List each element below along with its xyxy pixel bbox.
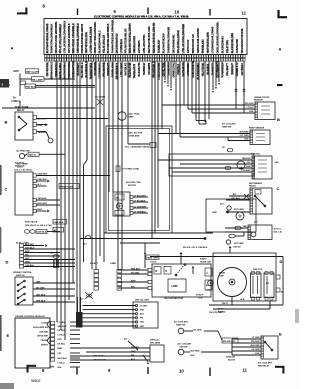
svg-text:BLK: BLK — [140, 314, 145, 316]
svg-text:10: 10 — [179, 369, 184, 374]
svg-text:BRN624XWLGR: BRN624XWLGR — [192, 34, 195, 53]
svg-text:A/C COOLANT: A/C COOLANT — [174, 320, 189, 323]
svg-text:TAN/BLK57: TAN/BLK57 — [158, 39, 161, 53]
svg-text:PNK BLK: PNK BLK — [26, 86, 36, 88]
svg-text:PUMP: PUMP — [128, 117, 135, 119]
svg-text:14-A: 14-A — [240, 298, 245, 301]
svg-text:FUEL PUMP: FUEL PUMP — [15, 107, 29, 109]
svg-text:MODULE: MODULE — [15, 166, 25, 168]
svg-text:LTGRN470XWL: LTGRN470XWL — [68, 61, 71, 79]
svg-text:RELAY: RELAY — [249, 185, 256, 188]
svg-text:A/T TCC: A/T TCC — [274, 228, 282, 231]
svg-text:TAN589XW: TAN589XW — [143, 62, 146, 76]
svg-text:YEL491XWLG: YEL491XWLG — [81, 62, 84, 78]
svg-text:(2.5L & 7.4L ONLY): (2.5L & 7.4L ONLY) — [14, 169, 32, 172]
svg-text:ORN/BLK72: ORN/BLK72 — [236, 62, 239, 76]
svg-text:MAP CLSTR: MAP CLSTR — [26, 70, 39, 73]
svg-text:GRY: GRY — [58, 339, 63, 341]
svg-text:IDLE AIR CTRL: IDLE AIR CTRL — [126, 181, 142, 184]
svg-text:MAP: MAP — [14, 70, 20, 73]
svg-text:VEH CAL UNIT: VEH CAL UNIT — [135, 298, 150, 301]
svg-text:BRN442XWLGRN450BLK: BRN442XWLGRN450BLK — [72, 23, 75, 53]
svg-text:SHOULDER SW: SHOULDER SW — [33, 327, 48, 329]
svg-text:TAN/BLK575: TAN/BLK575 — [133, 63, 136, 78]
svg-text:GRY617XW: GRY617XW — [187, 39, 190, 53]
svg-text:GRY BLK: GRY BLK — [58, 326, 67, 328]
svg-text:ORN449XWLGRN450BLK: ORN449XWLGRN450BLK — [77, 23, 80, 53]
svg-text:D: D — [280, 259, 283, 264]
svg-text:VSS: VSS — [275, 162, 280, 164]
svg-text:TACH: TACH — [218, 308, 224, 311]
svg-text:CAN BLK: CAN BLK — [37, 231, 47, 234]
svg-text:SELECT: SELECT — [90, 263, 99, 265]
svg-text:DKGRN414XWLGRN450BL: DKGRN414XWLGRN450BL — [55, 21, 58, 53]
svg-text:DKBLU477XWLGRN450BL: DKBLU477XWLGRN450BL — [94, 21, 97, 53]
svg-text:IAC: IAC — [116, 197, 120, 200]
svg-text:TAN589XWLGRN450B: TAN589XWLGRN450B — [168, 27, 171, 53]
svg-text:DK GRN: DK GRN — [131, 272, 139, 274]
svg-text:A/C COOLANT: A/C COOLANT — [178, 342, 193, 345]
svg-text:C: C — [5, 187, 8, 192]
svg-text:E: E — [279, 332, 282, 337]
svg-text:TEMP SW: TEMP SW — [176, 324, 185, 326]
svg-text:BRN442XWLG: BRN442XWLG — [51, 62, 54, 79]
svg-text:ORN449XWLG: ORN449XWLG — [55, 61, 58, 78]
svg-text:VEHICLE: VEHICLE — [150, 339, 159, 341]
svg-text:LT BLU: LT BLU — [58, 362, 66, 364]
svg-text:TAN 30: TAN 30 — [29, 154, 37, 157]
svg-text:PPL/WHT526XWLGR: PPL/WHT526XWLGR — [125, 28, 128, 53]
svg-text:D: D — [6, 260, 9, 265]
svg-text:NOT USED: NOT USED — [234, 243, 244, 245]
svg-text:DK GRN: DK GRN — [194, 329, 202, 331]
svg-text:DKGRN/WHT694XWL: DKGRN/WHT694XWL — [241, 27, 244, 53]
svg-text:PRIME CONN: PRIME CONN — [60, 187, 74, 189]
svg-text:PICKUP: PICKUP — [196, 295, 204, 297]
svg-text:TANK UNIT: TANK UNIT — [147, 257, 159, 260]
svg-text:A: A — [11, 46, 14, 51]
svg-text:SOL. CANISTER PURGE: SOL. CANISTER PURGE — [125, 146, 150, 149]
svg-text:PURPLE: PURPLE — [218, 311, 226, 313]
svg-text:CAR SER: CAR SER — [39, 330, 49, 333]
svg-text:BLK/RED484XWLG: BLK/RED484XWLG — [99, 30, 102, 53]
svg-text:SECONDARY: SECONDARY — [249, 182, 263, 185]
svg-text:CONN ASM: CONN ASM — [128, 135, 140, 138]
svg-text:WHT/BLK561XWLGRN: WHT/BLK561XWLGRN — [148, 26, 151, 53]
svg-text:BLK/WHT58: BLK/WHT58 — [138, 62, 141, 77]
svg-text:(W/A VIN A 2.5L, VIN N & 7.4L): (W/A VIN A 2.5L, VIN N & 7.4L) — [25, 224, 52, 227]
svg-text:A/C COOLANT: A/C COOLANT — [258, 362, 273, 365]
svg-text:SPLICE +O2: SPLICE +O2 — [223, 341, 236, 343]
svg-text:A: A — [279, 47, 282, 52]
svg-text:ELECTRONIC CONTROL MODULE (A V: ELECTRONIC CONTROL MODULE (A VIN A 2.5L … — [94, 14, 188, 18]
svg-text:DKGRN/WHT512: DKGRN/WHT512 — [116, 33, 119, 53]
svg-text:A/C CONN: A/C CONN — [95, 96, 105, 99]
svg-text:GRN: GRN — [38, 125, 43, 127]
svg-text:EGR VALVE: EGR VALVE — [25, 221, 38, 224]
svg-text:TAN407XWLGRN450BLK: TAN407XWLGRN450BLK — [51, 23, 54, 53]
svg-text:MOTOR: MOTOR — [128, 185, 136, 187]
svg-text:BLK/WHT582XW: BLK/WHT582XW — [163, 33, 166, 53]
svg-text:PNK/BLK63: PNK/BLK63 — [202, 39, 205, 54]
svg-text:PNK/BLK456XWLGRN45: PNK/BLK456XWLGRN45 — [81, 23, 84, 53]
svg-text:96602: 96602 — [31, 379, 41, 383]
svg-text:A/T TURBO CONN: A/T TURBO CONN — [122, 168, 140, 171]
svg-text:ORN631XWLG: ORN631XWLG — [173, 61, 176, 78]
svg-text:WHT: WHT — [131, 280, 136, 282]
svg-text:WHT645XWLGRN: WHT645XWLGRN — [207, 32, 210, 53]
svg-text:TAN/WHT68: TAN/WHT68 — [236, 38, 239, 53]
svg-text:G101: G101 — [50, 253, 55, 255]
svg-text:ORN/BLK540X: ORN/BLK540X — [133, 36, 136, 54]
svg-text:SPLICE +12V 2: PNK BLK: SPLICE +12V 2: PNK BLK — [183, 247, 208, 249]
svg-text:WHT: WHT — [131, 351, 136, 353]
svg-text:LT GRN/WHT: LT GRN/WHT — [134, 206, 147, 208]
svg-text:PNK BLK: PNK BLK — [131, 268, 140, 270]
svg-text:FUSE 9: FUSE 9 — [12, 100, 21, 103]
svg-text:COILS: COILS — [150, 262, 157, 264]
svg-text:A/T COOLANT: A/T COOLANT — [222, 123, 236, 126]
svg-text:LTGRN652XWLGRN45: LTGRN652XWLGRN45 — [212, 26, 215, 53]
svg-text:FAN RELAY: FAN RELAY — [258, 365, 270, 368]
svg-text:RADIO: RADIO — [200, 258, 207, 261]
svg-text:GEN: GEN — [212, 212, 217, 214]
svg-text:FAN SW: FAN SW — [180, 345, 188, 348]
svg-text:BLK RED: BLK RED — [191, 350, 200, 352]
svg-text:11: 11 — [243, 368, 248, 373]
svg-text:LT BLU/WHT: LT BLU/WHT — [134, 195, 147, 197]
svg-text:LTGRN470XWLGRN45: LTGRN470XWLGRN45 — [90, 26, 93, 53]
svg-text:DKGRN596XWL: DKGRN596XWL — [173, 34, 176, 53]
svg-text:CRUISE CONTROL: CRUISE CONTROL — [13, 272, 32, 274]
svg-text:ELEC. FUEL: ELEC. FUEL — [128, 114, 141, 116]
svg-text:MIL LAMP: MIL LAMP — [32, 78, 43, 81]
svg-text:LT BLU/BLK: LT BLU/BLK — [134, 200, 146, 202]
svg-text:COIL: COIL — [206, 290, 212, 292]
svg-text:KNAP SENSOR: KNAP SENSOR — [249, 127, 265, 130]
svg-text:PNK: PNK — [140, 309, 145, 311]
svg-text:GAS. ALT THR: GAS. ALT THR — [128, 132, 143, 135]
svg-text:WHT/BLK5: WHT/BLK5 — [125, 62, 128, 75]
svg-text:DRIVE SER: DRIVE SER — [37, 336, 48, 338]
svg-text:BLK/RED666X: BLK/RED666X — [197, 63, 200, 80]
svg-text:CAP: CAP — [220, 275, 225, 278]
svg-text:PPL/WHT7: PPL/WHT7 — [226, 63, 229, 76]
svg-text:BRN: BRN — [58, 348, 63, 350]
svg-text:SENSOR: SENSOR — [254, 100, 263, 102]
svg-text:A/T FUEL: A/T FUEL — [15, 162, 26, 165]
svg-text:E: E — [7, 333, 10, 338]
svg-text:LTBLU428XWLGRN450BLK: LTBLU428XWLGRN450BLK — [64, 20, 67, 53]
svg-text:B: B — [277, 117, 280, 122]
svg-text:C: C — [277, 186, 280, 191]
svg-text:ORN631XWLGRN450: ORN631XWLGRN450 — [197, 28, 200, 54]
svg-text:CARB: CARB — [110, 262, 116, 265]
svg-text:DKGRN59: DKGRN59 — [148, 62, 151, 74]
svg-text:DKBLU659XW: DKBLU659XW — [192, 60, 195, 77]
svg-text:WHT BLK: WHT BLK — [58, 358, 68, 360]
svg-text:DK BLU: DK BLU — [58, 343, 66, 345]
svg-text:CAN BLK: CAN BLK — [54, 221, 64, 224]
svg-text:B: B — [5, 120, 8, 125]
svg-text:DK GRN: DK GRN — [58, 330, 66, 332]
svg-text:PPL603XWLGRN45: PPL603XWLGRN45 — [177, 30, 180, 54]
svg-text:CRANK POSTN: CRANK POSTN — [254, 96, 270, 99]
svg-text:TEMP SW: TEMP SW — [222, 127, 231, 129]
svg-text:NOT USED: NOT USED — [234, 209, 244, 211]
svg-text:SIDE COIL: SIDE COIL — [253, 269, 263, 271]
svg-text:BLK/WHT400XWLGRN45: BLK/WHT400XWLGRN45 — [46, 23, 49, 53]
svg-text:C1: C1 — [206, 273, 208, 275]
svg-text:SPD SENS: SPD SENS — [150, 342, 161, 344]
svg-text:TAN: TAN — [140, 321, 144, 324]
svg-text:10: 10 — [175, 10, 180, 15]
svg-text:TACH: TACH — [222, 302, 228, 305]
svg-text:TAN: TAN — [243, 225, 248, 228]
svg-text:ALT: ALT — [54, 229, 59, 232]
svg-text:BLK/RED666X: BLK/RED666X — [222, 36, 225, 53]
svg-text:11: 11 — [242, 11, 247, 16]
svg-text:GRY435XWL: GRY435XWL — [46, 61, 49, 76]
svg-text:LTBLU/WHT554: LTBLU/WHT554 — [143, 34, 146, 53]
svg-text:BRN/WHT533XWLGRN45: BRN/WHT533XWLGRN45 — [129, 23, 132, 53]
svg-text:SOL 7.4L: SOL 7.4L — [274, 231, 283, 234]
svg-text:SERVO: SERVO — [41, 345, 48, 347]
svg-text:TAN/WHT505XWLGRN450BL: TAN/WHT505XWLGRN450BL — [112, 19, 115, 54]
svg-text:BRN/WHT: BRN/WHT — [231, 62, 234, 74]
svg-text:NOISE CAP: NOISE CAP — [200, 260, 212, 263]
svg-text:GRY/RED547X: GRY/RED547X — [116, 62, 119, 79]
svg-text:GRY/RED5: GRY/RED5 — [138, 40, 141, 53]
svg-text:CRUISE CONTROL MODULE: CRUISE CONTROL MODULE — [15, 316, 45, 318]
svg-text:YEL491XWLGR: YEL491XWLGR — [103, 35, 106, 54]
svg-text:LAMP: LAMP — [171, 285, 178, 288]
svg-text:BLK: BLK — [58, 367, 63, 369]
svg-text:BLK498XWLGRN450BLK: BLK498XWLGRN450BLK — [107, 23, 110, 53]
svg-text:HEI DISTRIBUTOR: HEI DISTRIBUTOR — [164, 298, 184, 300]
svg-text:PPL421XWLGRN450BLK: PPL421XWLGRN450BLK — [59, 24, 62, 54]
svg-text:DKBLU659XWLGRN450BL: DKBLU659XWLGRN450BL — [217, 21, 220, 53]
svg-text:YEL673XWL: YEL673XWL — [202, 62, 205, 77]
svg-text:LT GRN: LT GRN — [58, 322, 66, 324]
svg-text:YEL673XW: YEL673XW — [226, 39, 229, 53]
svg-text:IGNITION: IGNITION — [226, 357, 235, 359]
svg-text:RED/BLK568XWLGRN450: RED/BLK568XWLGRN450 — [153, 22, 156, 53]
svg-text:LT GRN/BLK: LT GRN/BLK — [134, 211, 147, 213]
svg-text:OIL PRES SW: OIL PRES SW — [16, 151, 30, 153]
svg-text:LT BLU: LT BLU — [58, 334, 66, 336]
svg-text:LTGRN/BLK: LTGRN/BLK — [120, 39, 123, 53]
svg-text:DISTR: DISTR — [219, 273, 226, 275]
svg-text:WHT463XWLGRN: WHT463XWLGRN — [85, 32, 88, 53]
svg-text:BLOCK: BLOCK — [228, 360, 236, 362]
svg-text:LT GRN: LT GRN — [140, 305, 148, 307]
svg-text:LTBLU610XWLGRN450B: LTBLU610XWLGRN450B — [182, 24, 185, 53]
svg-text:GRY435XWLGRN450BLK: GRY435XWLGRN450BLK — [68, 23, 71, 53]
svg-text:BLK: BLK — [131, 359, 136, 361]
svg-text:EGR SOL: EGR SOL — [251, 154, 261, 156]
svg-text:RED/BLK568: RED/BLK568 — [129, 62, 132, 78]
svg-text:C/MT A6: C/MT A6 — [233, 246, 241, 249]
svg-text:BLK680XWLGRN: BLK680XWLGRN — [231, 33, 234, 54]
svg-text:BLK: BLK — [191, 355, 196, 357]
